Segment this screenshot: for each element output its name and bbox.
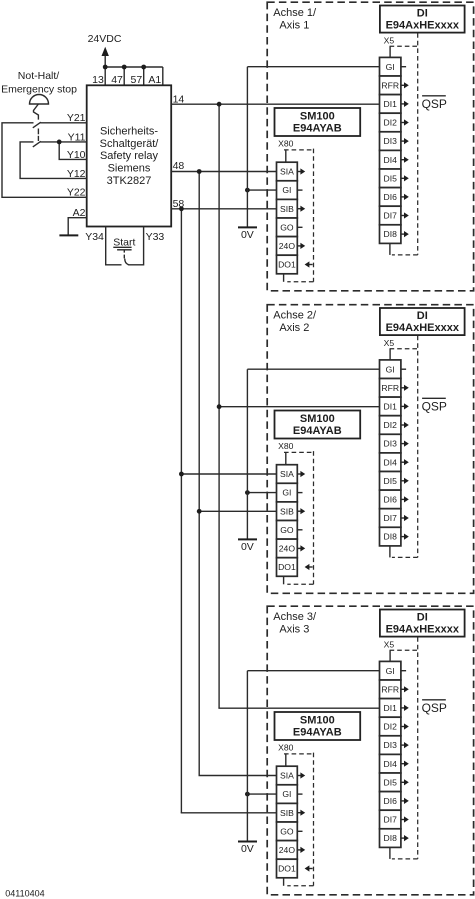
wire 48 to axis1 SIA [171, 171, 276, 173]
svg-text:Axis 1: Axis 1 [279, 19, 309, 31]
axis2 0V ground bar [238, 538, 257, 540]
svg-text:0V: 0V [241, 541, 254, 553]
start actuator T-bar [117, 249, 132, 251]
wire bus48 to axis2 SIB [199, 510, 276, 512]
wire bus14 to axis2 DI1 [219, 406, 379, 408]
emergency stop mushroom head [30, 95, 49, 105]
svg-text:24VDC: 24VDC [88, 33, 122, 45]
axis3 0V ground bar [238, 841, 257, 843]
svg-text:47: 47 [111, 74, 123, 86]
svg-text:13: 13 [92, 74, 104, 86]
bus wire from terminal 58 (x=181) [180, 209, 182, 813]
wire bus58 to axis2 SIA [181, 473, 276, 475]
svg-text:Schaltgerät/: Schaltgerät/ [100, 138, 160, 150]
axis3 0V rail [246, 671, 248, 842]
e-stop actuator squiggle [34, 104, 39, 120]
svg-text:Achse 2/: Achse 2/ [273, 310, 317, 322]
junction dot 47 [122, 65, 127, 70]
wire bus48 to axis3 SIA (corner) [199, 775, 277, 777]
wire A2 to ground [68, 218, 87, 236]
svg-text:Achse 1/: Achse 1/ [273, 7, 317, 19]
e-stop contact 2 [33, 141, 41, 147]
junction dot bus14 tap axis2 [217, 404, 222, 409]
wire bus58 to axis3 SIB (corner) [181, 812, 277, 814]
stub to terminal 13 [104, 67, 106, 85]
stub to terminal A1 [162, 67, 164, 85]
junction dot Y11/Y10 [57, 140, 62, 145]
stub to terminal 57 [143, 67, 145, 85]
wire bus14 to axis3 DI1 (corner) [218, 707, 379, 709]
svg-text:Start: Start [113, 236, 135, 248]
svg-text:Axis 3: Axis 3 [279, 623, 309, 635]
svg-text:Emergency stop: Emergency stop [1, 83, 77, 95]
svg-text:Not-Halt/: Not-Halt/ [18, 70, 60, 82]
ground bar A2 [59, 234, 78, 236]
bus wire from terminal 14 (x=219) [218, 104, 220, 708]
svg-text:Y11: Y11 [68, 131, 86, 143]
svg-text:48: 48 [173, 160, 185, 172]
wire 58 to axis1 SIB [171, 208, 276, 210]
svg-text:Y33: Y33 [146, 231, 165, 243]
junction dot bus58 tap axis1 [179, 206, 184, 211]
24V supply bus wire [105, 66, 163, 68]
axis2 0V rail [246, 369, 248, 539]
wire Y21 [40, 122, 86, 124]
svg-text:Y34: Y34 [85, 231, 104, 243]
junction dot 57 [141, 65, 146, 70]
svg-text:Siemens: Siemens [108, 163, 151, 175]
safety relay box U1 Siemens 3TK2827 [87, 85, 172, 226]
svg-text:A2: A2 [73, 207, 86, 219]
svg-text:Y12: Y12 [67, 168, 86, 180]
axis 1 assembly [245, 2, 474, 291]
svg-text:57: 57 [131, 74, 143, 86]
svg-text:Y22: Y22 [67, 187, 86, 199]
e-stop actuator dash 1 [37, 129, 39, 135]
svg-text:Y10: Y10 [67, 149, 86, 161]
bus wire from terminal 48 (x=199) [198, 172, 200, 776]
stub to terminal 47 [123, 67, 125, 85]
junction dot bus48 tap axis2 [197, 509, 202, 514]
wire Y10 to Y11 junction [59, 142, 86, 160]
wire 14 to axis1 DI1 [171, 103, 379, 105]
svg-text:04110404: 04110404 [5, 888, 44, 898]
axis 2 assembly [245, 305, 474, 594]
junction dot 13 [103, 65, 108, 70]
svg-text:0V: 0V [241, 843, 254, 855]
start actuator dash [123, 255, 125, 259]
start contact hook [125, 259, 129, 265]
svg-text:Sicherheits-: Sicherheits- [100, 126, 158, 138]
svg-text:Y21: Y21 [67, 112, 86, 124]
svg-text:3TK2827: 3TK2827 [107, 175, 152, 187]
svg-text:Safety relay: Safety relay [100, 150, 159, 162]
svg-text:A1: A1 [148, 74, 161, 86]
wire Y11 [40, 141, 86, 143]
axis1 0V rail [246, 67, 248, 228]
svg-text:Achse 3/: Achse 3/ [273, 611, 317, 623]
e-stop contact 1 [33, 122, 41, 128]
junction dot bus14 tap axis1 [217, 102, 222, 107]
junction dot bus48 tap axis1 [197, 169, 202, 174]
svg-text:0V: 0V [241, 229, 254, 241]
e-stop actuator dash 2 [37, 136, 39, 141]
Start button loop [106, 227, 122, 265]
axis 3 assembly [245, 606, 474, 895]
svg-text:Axis 2: Axis 2 [279, 322, 309, 334]
24VDC arrow symbol [102, 47, 109, 56]
axis1 0V ground bar [238, 226, 257, 228]
junction dot bus58 tap axis2 [179, 472, 184, 477]
